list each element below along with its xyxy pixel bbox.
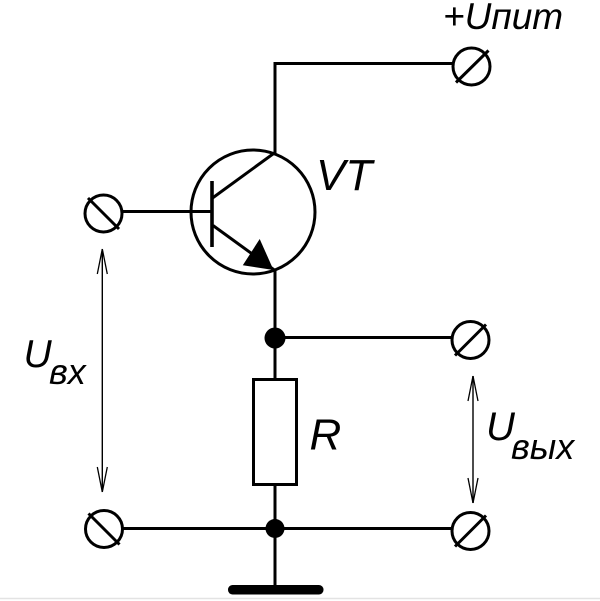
svg-text:R: R xyxy=(310,411,342,460)
label VT xyxy=(316,151,375,200)
wire collector vertical xyxy=(274,62,277,154)
ground xyxy=(228,585,324,595)
transistor VT xyxy=(191,150,315,274)
wire output top xyxy=(275,336,451,339)
svg-text:VT: VT xyxy=(316,151,375,200)
arrow Uвх xyxy=(97,249,107,492)
wire bottom right xyxy=(275,527,451,530)
node emitter junction xyxy=(265,328,286,349)
wire bottom left xyxy=(122,527,275,530)
label Uвых xyxy=(486,405,576,467)
label R xyxy=(310,411,342,460)
label Uвх xyxy=(24,333,88,392)
wire collector top horizontal xyxy=(275,62,453,65)
terminal input bottom xyxy=(86,511,123,548)
svg-text:вх: вх xyxy=(49,351,88,392)
svg-text:+Uпит: +Uпит xyxy=(443,0,563,37)
svg-text:вых: вых xyxy=(511,426,576,467)
wire emitter vertical xyxy=(274,269,277,379)
terminal output bottom xyxy=(452,513,489,550)
wire resistor bottom xyxy=(274,484,277,587)
terminal output top xyxy=(452,322,489,359)
bottom edge line xyxy=(0,598,600,600)
terminal +Uпит xyxy=(453,48,490,85)
resistor R xyxy=(254,380,297,485)
wire base xyxy=(122,210,212,213)
label +Uпит xyxy=(443,0,563,37)
terminal input xyxy=(85,195,122,232)
arrow Uвых xyxy=(468,376,478,503)
node ground junction xyxy=(266,519,285,538)
